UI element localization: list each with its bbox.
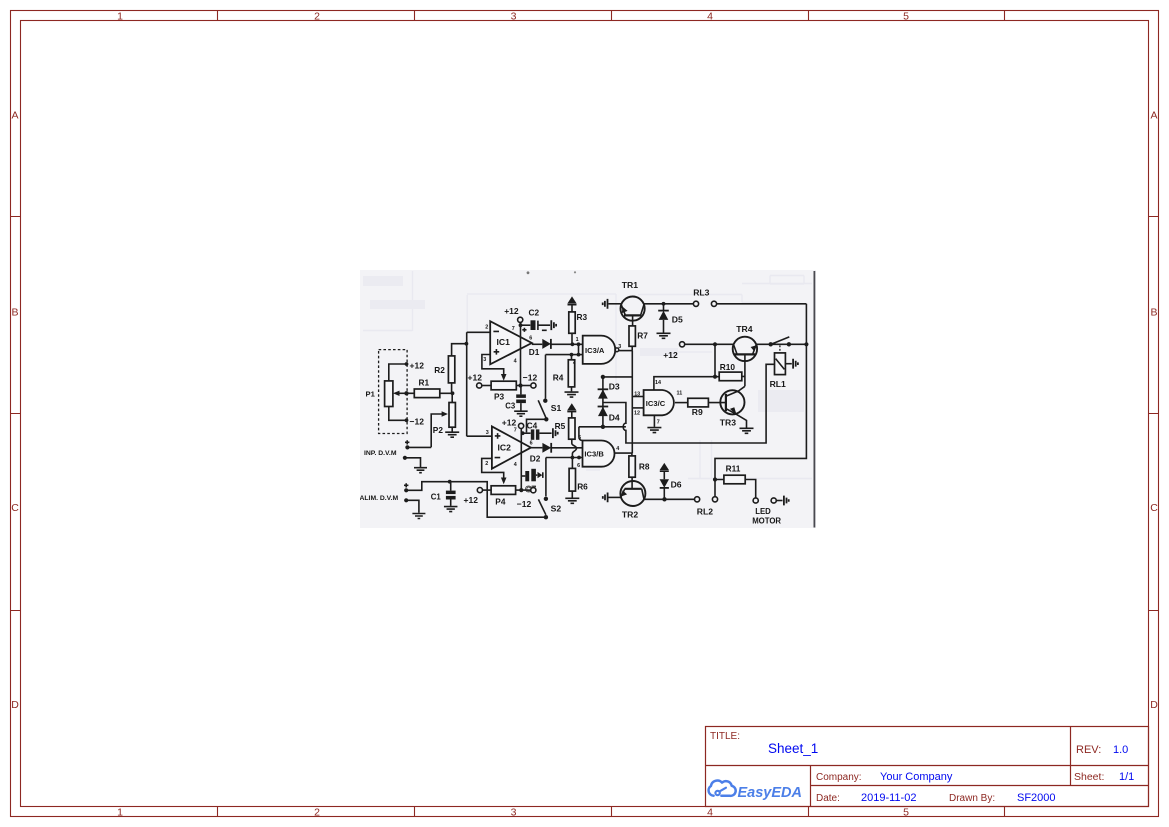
resistor R2 (434, 356, 455, 383)
svg-text:R11: R11 (726, 463, 741, 473)
ground D5 (657, 320, 671, 338)
svg-text:P4: P4 (495, 496, 506, 506)
scanned schematic image (360, 270, 816, 528)
wire D3/D4 midpoint to RL1 coil (with hop) (603, 364, 775, 443)
svg-text:D4: D4 (609, 413, 620, 423)
svg-text:12: 12 (634, 411, 640, 417)
capacitor C3 (505, 386, 526, 411)
svg-text:+12: +12 (502, 417, 517, 427)
svg-text:R9: R9 (692, 407, 703, 417)
diode D4 (598, 407, 620, 429)
svg-text:TR2: TR2 (622, 509, 638, 519)
wire +12 row to TR4 (685, 342, 734, 346)
resistor R5 (555, 418, 575, 439)
svg-text:D1: D1 (529, 347, 540, 357)
svg-text:D6: D6 (671, 479, 682, 489)
top ruler ticks (218, 11, 1005, 21)
svg-text:+12: +12 (410, 361, 425, 371)
power arrow above R5 (567, 403, 576, 418)
svg-text:5: 5 (903, 11, 909, 23)
wire P1 wiper with arrow (393, 391, 409, 396)
svg-text:4: 4 (616, 446, 619, 452)
svg-text:ALIM. D.V.M: ALIM. D.V.M (360, 495, 398, 502)
-12 terminal P4 right (516, 488, 536, 509)
wire right edge loop (713, 304, 807, 497)
potentiometer P3 (491, 381, 516, 401)
wire D4 bottom row (579, 426, 626, 428)
node +12 (P1 top) (410, 361, 425, 371)
svg-text:D3: D3 (609, 382, 620, 392)
+12 terminal IC2 pin7 (502, 417, 524, 428)
wire pin14 row (654, 377, 719, 390)
wire R2 top to IC1 inverting node (452, 342, 469, 356)
svg-text:2: 2 (573, 359, 576, 365)
svg-text:1.0: 1.0 (1113, 744, 1128, 756)
wire IC3/C output (675, 402, 688, 404)
wire IC1 pin2 input (467, 332, 491, 436)
potentiometer P1 dashed enclosure (379, 350, 408, 434)
svg-text:Company:: Company: (816, 772, 862, 783)
terminal LED/MOTOR left (752, 496, 789, 526)
svg-text:11: 11 (677, 391, 683, 397)
relay contact RL3 (693, 288, 806, 307)
svg-text:IC3/A: IC3/A (585, 346, 605, 355)
svg-text:5: 5 (903, 807, 909, 819)
wire down to S1 (545, 355, 547, 399)
wire IC3/B output to R8 and pin12 (615, 453, 632, 456)
right ruler ticks (1149, 217, 1159, 611)
+12 terminal right (663, 342, 684, 361)
relay RL1 coil (770, 345, 786, 389)
svg-text:TR3: TR3 (720, 418, 736, 428)
svg-text:3: 3 (618, 344, 621, 350)
pickup symbol TR2 emitter (603, 493, 621, 503)
svg-text:Sheet:: Sheet: (1074, 771, 1104, 783)
ground R6 (565, 491, 579, 503)
svg-text:R2: R2 (434, 365, 445, 375)
potentiometer P1 (366, 381, 393, 407)
ground TR3 (740, 428, 754, 433)
svg-text:P3: P3 (494, 391, 505, 401)
potentiometer P4 (491, 486, 515, 507)
resistor R1 (414, 378, 440, 398)
svg-text:−12: −12 (410, 417, 425, 427)
wire IC1 pin3 to P3 wiper (482, 355, 507, 381)
node INP DVM + (405, 440, 431, 449)
svg-text:4: 4 (514, 359, 517, 365)
title block (706, 727, 1149, 807)
resistor R3 (569, 312, 588, 334)
wire TR2 collector row (644, 497, 695, 501)
svg-text:4: 4 (707, 11, 713, 23)
ground C3 (514, 403, 528, 416)
+12 terminal IC1 pin7 (504, 306, 523, 323)
svg-text:4: 4 (514, 462, 517, 468)
svg-text:−12: −12 (523, 372, 538, 382)
resistor R6 (569, 458, 588, 492)
svg-text:6: 6 (529, 335, 532, 341)
svg-text:−12: −12 (517, 499, 532, 509)
transistor TR2 (620, 477, 645, 519)
svg-text:C: C (11, 502, 19, 514)
svg-text:7: 7 (514, 428, 517, 434)
wire IC3/A output net vertical (631, 351, 633, 454)
+12 terminal P3 left (468, 372, 492, 388)
wire pin13 stub (632, 396, 643, 398)
svg-text:Date:: Date: (816, 793, 840, 804)
node ALIM DVM + (404, 480, 546, 517)
relay contact RL2 (695, 497, 718, 517)
wire D4 net into IC3/B corner (579, 427, 583, 441)
svg-text:IC2: IC2 (498, 443, 512, 453)
potentiometer P2 (433, 403, 456, 435)
ground INP lower contact (403, 456, 427, 473)
wire R3 bottom (571, 333, 573, 344)
svg-text:D: D (1150, 699, 1158, 711)
diode D3 (598, 377, 620, 427)
svg-text:R1: R1 (419, 378, 430, 388)
svg-text:P2: P2 (433, 425, 444, 435)
svg-text:C: C (1150, 502, 1158, 514)
svg-text:2: 2 (314, 807, 320, 819)
svg-text:INP. D.V.M: INP. D.V.M (364, 450, 397, 457)
wire pin12 stub (632, 407, 643, 409)
svg-text:R6: R6 (577, 482, 588, 492)
bottom ruler ticks (218, 807, 1005, 817)
svg-text:R4: R4 (553, 372, 564, 382)
NAND gate IC3/A (573, 336, 622, 366)
svg-text:1/1: 1/1 (1119, 771, 1134, 783)
svg-text:3: 3 (511, 11, 517, 23)
svg-text:3: 3 (511, 807, 517, 819)
wire to D3 top (601, 375, 633, 379)
switch S1 (527, 399, 562, 433)
wire D1 output row to IC3/A pin1 (551, 342, 583, 346)
svg-text:14: 14 (655, 380, 661, 386)
svg-text:REV:: REV: (1076, 744, 1101, 756)
NAND gate IC3/C (634, 380, 682, 425)
capacitor C4 (521, 420, 557, 440)
svg-text:+12: +12 (504, 306, 519, 316)
capacitor C1 (431, 482, 456, 502)
svg-text:MOTOR: MOTOR (752, 517, 781, 526)
wire R1 leads (407, 391, 455, 395)
svg-text:1: 1 (117, 807, 123, 819)
svg-text:TITLE:: TITLE: (710, 731, 740, 742)
diode D2 (530, 443, 551, 464)
svg-text:IC3/B: IC3/B (584, 450, 604, 459)
svg-text:TR1: TR1 (622, 280, 638, 290)
wire R5 bottom hop (572, 439, 577, 457)
wire IC2 pin3 input (467, 435, 492, 437)
resistor R11 (724, 463, 745, 483)
wire R11 leads (715, 480, 756, 498)
wire P2 top (451, 393, 453, 402)
wire IC3/A pin2 row (546, 353, 583, 357)
ground IC3/C pin7 (647, 415, 661, 432)
scan clip right edge (813, 271, 815, 528)
svg-text:RL1: RL1 (770, 379, 786, 389)
svg-text:Sheet_1: Sheet_1 (768, 741, 818, 756)
svg-text:C4: C4 (527, 420, 538, 430)
EasyEDA logo (709, 781, 802, 801)
wire P1 bottom to -12 node (389, 407, 409, 423)
svg-text:IC1: IC1 (497, 337, 511, 347)
power arrow D6 top (660, 463, 669, 479)
svg-text:2: 2 (485, 324, 488, 330)
capacitor C2 (521, 307, 557, 332)
left ruler ticks (11, 217, 21, 611)
svg-text:R3: R3 (577, 312, 588, 322)
svg-text:1: 1 (576, 337, 579, 343)
svg-text:3: 3 (486, 430, 489, 436)
wire D2 to IC3/B pin5 (551, 447, 582, 449)
wire input tie vertical (577, 344, 581, 356)
transistor TR4 (733, 324, 757, 387)
power arrow R3 top (567, 296, 576, 312)
svg-text:R7: R7 (637, 330, 648, 340)
svg-text:B: B (11, 307, 18, 319)
node -12 (P1 bottom) (410, 417, 425, 427)
wire pin7 supply vertical (519, 322, 523, 385)
svg-text:+12: +12 (663, 350, 678, 360)
transistor TR3 (720, 386, 747, 427)
resistor R10 (719, 362, 742, 381)
svg-text:D: D (11, 699, 19, 711)
svg-text:IC3/C: IC3/C (646, 399, 666, 408)
diode D6 (660, 479, 682, 499)
svg-text:R8: R8 (639, 461, 650, 471)
svg-text:13: 13 (634, 391, 640, 397)
wire pin7 supply vertical IC2 (519, 429, 524, 493)
pickup symbol RL1 right (785, 359, 798, 369)
wire +12 vertical to pin14 row (713, 344, 717, 379)
svg-text:6: 6 (530, 441, 533, 447)
svg-text:2: 2 (485, 461, 488, 467)
switch S2 (538, 458, 561, 520)
svg-text:LED: LED (755, 507, 771, 516)
-12 terminal P3 right (516, 372, 537, 388)
svg-text:S1: S1 (551, 403, 562, 413)
svg-text:Your Company: Your Company (880, 771, 953, 783)
svg-text:P1: P1 (366, 390, 376, 399)
+12 terminal P4 left (464, 488, 492, 505)
diode D1 (529, 339, 551, 357)
svg-text:7: 7 (512, 326, 515, 332)
resistor R9 (688, 398, 709, 417)
resistor R8 (629, 456, 650, 477)
wire P2 wiper from INP node (431, 411, 448, 447)
svg-text:Drawn By:: Drawn By: (949, 793, 995, 804)
svg-text:B: B (1150, 307, 1157, 319)
svg-text:C1: C1 (431, 492, 442, 501)
wire TR1 collector row (644, 302, 694, 306)
svg-text:RL2: RL2 (697, 507, 713, 517)
NAND gate IC3/B (577, 435, 619, 469)
svg-text:4: 4 (707, 807, 713, 819)
op-amp IC1 (483, 321, 532, 364)
transistor TR1 (621, 280, 645, 326)
relay RL1 switch arm (772, 337, 789, 344)
svg-text:R5: R5 (555, 421, 566, 431)
ground C1 (444, 500, 458, 512)
pickup symbol TR1 base (603, 299, 621, 309)
resistor R4 (553, 355, 575, 387)
resistor R7 (629, 326, 648, 351)
svg-text:SF2000: SF2000 (1017, 792, 1056, 804)
svg-text:A: A (11, 110, 18, 122)
svg-text:TR4: TR4 (736, 324, 752, 334)
svg-text:3: 3 (483, 357, 486, 363)
ghost bleed-through marks (363, 271, 812, 500)
svg-text:D2: D2 (530, 453, 541, 463)
wire R9 to TR3 base (708, 402, 726, 404)
svg-text:RL3: RL3 (693, 288, 709, 298)
wire P1 top to +12 node (389, 362, 409, 381)
svg-text:D5: D5 (672, 314, 683, 324)
svg-text:EasyEDA: EasyEDA (738, 785, 802, 801)
svg-text:2: 2 (314, 11, 320, 23)
capacitor C5 (521, 469, 543, 494)
ground ALIM lower contact (404, 498, 425, 518)
wire IC2 pin2 to P4 wiper (482, 458, 507, 484)
svg-text:+12: +12 (464, 495, 479, 505)
svg-text:6: 6 (577, 463, 580, 469)
svg-text:+12: +12 (468, 372, 483, 382)
svg-text:7: 7 (657, 419, 660, 425)
svg-text:C2: C2 (529, 307, 540, 317)
wire R2 bottom to junction (451, 383, 453, 393)
diode D5 (658, 304, 683, 325)
wire TR4 right to switch (756, 342, 808, 346)
op-amp IC2 (485, 426, 532, 468)
svg-text:S2: S2 (551, 503, 562, 513)
svg-text:A: A (1150, 110, 1157, 122)
ground R4 (565, 387, 579, 397)
wire IC3/A output (619, 350, 633, 352)
svg-text:2019-11-02: 2019-11-02 (861, 792, 916, 804)
svg-text:C3: C3 (505, 402, 516, 411)
wire pin6 row (546, 456, 583, 460)
ground P2 (445, 427, 459, 437)
svg-text:1: 1 (117, 11, 123, 23)
svg-text:R10: R10 (720, 362, 736, 372)
